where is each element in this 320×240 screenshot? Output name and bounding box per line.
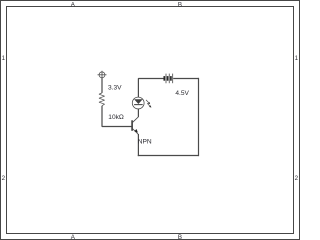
svg-text:1: 1 xyxy=(2,55,6,62)
svg-text:B: B xyxy=(178,234,182,240)
wire LED top to top rail xyxy=(138,79,163,98)
LED D1 anode triangle xyxy=(134,99,143,104)
bottom rail wire xyxy=(138,155,199,157)
svg-text:3.3V: 3.3V xyxy=(108,85,122,92)
LED light arrow 2 xyxy=(147,103,151,107)
LED D1 cathode bar xyxy=(134,104,143,106)
resistor R1 10kΩ xyxy=(99,93,105,106)
LED D1 body xyxy=(132,97,144,109)
svg-text:1: 1 xyxy=(295,55,299,62)
transistor Q1 collector lead xyxy=(132,109,138,123)
transistor Q1 emitter arrowhead xyxy=(134,129,138,133)
svg-text:4.5V: 4.5V xyxy=(175,90,189,97)
svg-text:10kΩ: 10kΩ xyxy=(108,114,124,121)
wire LED bottom to collector xyxy=(137,109,139,117)
LED light arrow 1 xyxy=(146,100,150,104)
svg-text:B: B xyxy=(178,2,182,9)
wire power to resistor xyxy=(101,78,103,93)
svg-text:2: 2 xyxy=(295,175,299,182)
right rail wire down xyxy=(198,78,200,156)
transistor Q1 base bar xyxy=(131,120,133,131)
wire battery to right rail xyxy=(173,78,199,80)
transistor Q1 emitter lead xyxy=(132,129,138,135)
wire resistor to transistor base xyxy=(102,106,132,127)
svg-text:NPN: NPN xyxy=(138,138,152,145)
battery B1 cell bars xyxy=(164,74,172,84)
wire emitter down to bottom rail xyxy=(137,134,139,156)
svg-text:2: 2 xyxy=(2,175,6,182)
power source V1 (3.3V supply symbol) xyxy=(98,71,107,79)
